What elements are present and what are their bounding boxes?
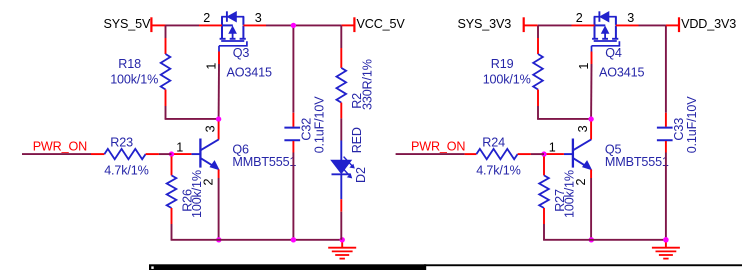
transistor Q6: [218, 122, 220, 140]
svg-text:SYS_5V: SYS_5V: [104, 17, 151, 31]
svg-text:4.7k/1%: 4.7k/1%: [476, 164, 520, 178]
resistor R24: [476, 149, 517, 159]
svg-text:4.7k/1%: 4.7k/1%: [104, 164, 148, 178]
svg-text:3: 3: [204, 125, 218, 132]
pmos Q4 body-diode: [594, 17, 596, 25]
junction ground/bottom rail: [340, 237, 345, 242]
svg-text:1: 1: [204, 63, 218, 70]
ground: [665, 240, 667, 248]
svg-text:RED: RED: [350, 127, 364, 153]
junction base node: [169, 151, 174, 156]
svg-text:PWR_ON: PWR_ON: [411, 140, 465, 154]
svg-text:100k/1%: 100k/1%: [483, 72, 531, 86]
svg-text:PWR_ON: PWR_ON: [33, 140, 87, 154]
junction ground/bottom rail: [663, 237, 668, 242]
pmos Q3 pins: [199, 24, 222, 26]
svg-text:3: 3: [255, 11, 262, 25]
wire R bottom to gate node: [537, 118, 591, 120]
resistor R2: [340, 25, 342, 48]
wire R bottom to gate node: [165, 118, 219, 120]
wire top rail: [538, 24, 572, 26]
svg-text:2: 2: [203, 11, 210, 25]
ground: [341, 240, 343, 248]
svg-text:Q4: Q4: [605, 46, 622, 60]
junction C33 bottom: [663, 237, 668, 242]
svg-text:R24: R24: [482, 136, 505, 150]
pmos Q3 gate: [221, 40, 244, 42]
svg-text:330R/1%: 330R/1%: [361, 59, 375, 110]
svg-text:100k/1%: 100k/1%: [110, 72, 158, 86]
LED D2: [340, 141, 342, 161]
pmos Q4 gate: [594, 40, 617, 42]
svg-text:AO3415: AO3415: [227, 66, 272, 80]
transistor Q6 pins: [172, 153, 192, 155]
svg-text:R18: R18: [118, 57, 141, 71]
resistor R23: [104, 149, 145, 159]
port VDD_3V3: [666, 24, 679, 26]
resistor R27: [543, 157, 545, 176]
svg-text:0.1uF/10V: 0.1uF/10V: [312, 96, 326, 154]
svg-text:AO3415: AO3415: [599, 66, 644, 80]
svg-text:1: 1: [549, 140, 556, 154]
capacitor C33: [665, 25, 667, 112]
svg-text:R19: R19: [491, 57, 514, 71]
junction C32 bottom: [291, 237, 296, 242]
junction emitter/bottom rail: [216, 237, 221, 242]
junction gate/collector: [216, 116, 221, 121]
junction gate/collector: [588, 116, 593, 121]
svg-text:VCC_5V: VCC_5V: [357, 17, 406, 31]
table border: [149, 264, 425, 270]
wire gate to collector node: [218, 64, 220, 119]
capacitor C32: [292, 25, 294, 112]
wire PWR_ON: [22, 153, 91, 155]
transistor Q5: [590, 122, 592, 140]
junction emitter/bottom rail: [589, 237, 594, 242]
svg-text:MMBT5551: MMBT5551: [232, 155, 296, 169]
svg-text:VDD_3V3: VDD_3V3: [681, 17, 736, 31]
resistor R19: [537, 25, 539, 38]
wire top rail: [166, 24, 200, 26]
pmos Q3 body-diode: [221, 17, 223, 25]
port VCC_5V: [341, 24, 354, 26]
wire PWR_ON: [396, 153, 465, 155]
pmos Q3 channel: [221, 25, 223, 38]
wire emitter drop: [590, 178, 592, 240]
svg-text:2: 2: [576, 11, 583, 25]
svg-text:1: 1: [577, 63, 591, 70]
pmos Q4 channel: [594, 25, 596, 38]
port SYS_3V3: [523, 17, 525, 32]
junction base node: [541, 151, 546, 156]
resistor R26: [171, 157, 173, 176]
svg-text:SYS_3V3: SYS_3V3: [458, 17, 512, 31]
LED D2 arrows: [344, 157, 352, 166]
svg-text:3: 3: [576, 125, 590, 132]
resistor R18: [165, 25, 167, 38]
svg-text:Q3: Q3: [233, 46, 250, 60]
svg-text:1: 1: [176, 140, 183, 154]
svg-text:0.1uF/10V: 0.1uF/10V: [685, 96, 699, 154]
wire emitter drop: [218, 178, 220, 240]
svg-text:MMBT5551: MMBT5551: [605, 155, 669, 169]
svg-text:3: 3: [627, 11, 634, 25]
junction C32 top: [291, 23, 296, 28]
transistor Q5 pins: [544, 153, 564, 155]
pmos Q4 pins: [572, 24, 595, 26]
svg-text:R23: R23: [110, 136, 133, 150]
svg-text:D2: D2: [354, 167, 368, 183]
svg-text:100k/1%: 100k/1%: [563, 170, 577, 218]
port SYS_5V: [150, 17, 152, 32]
wire bottom rail: [171, 239, 343, 241]
svg-text:100k/1%: 100k/1%: [190, 170, 204, 218]
wire bottom rail: [543, 239, 666, 241]
wire gate to collector node: [590, 64, 592, 119]
